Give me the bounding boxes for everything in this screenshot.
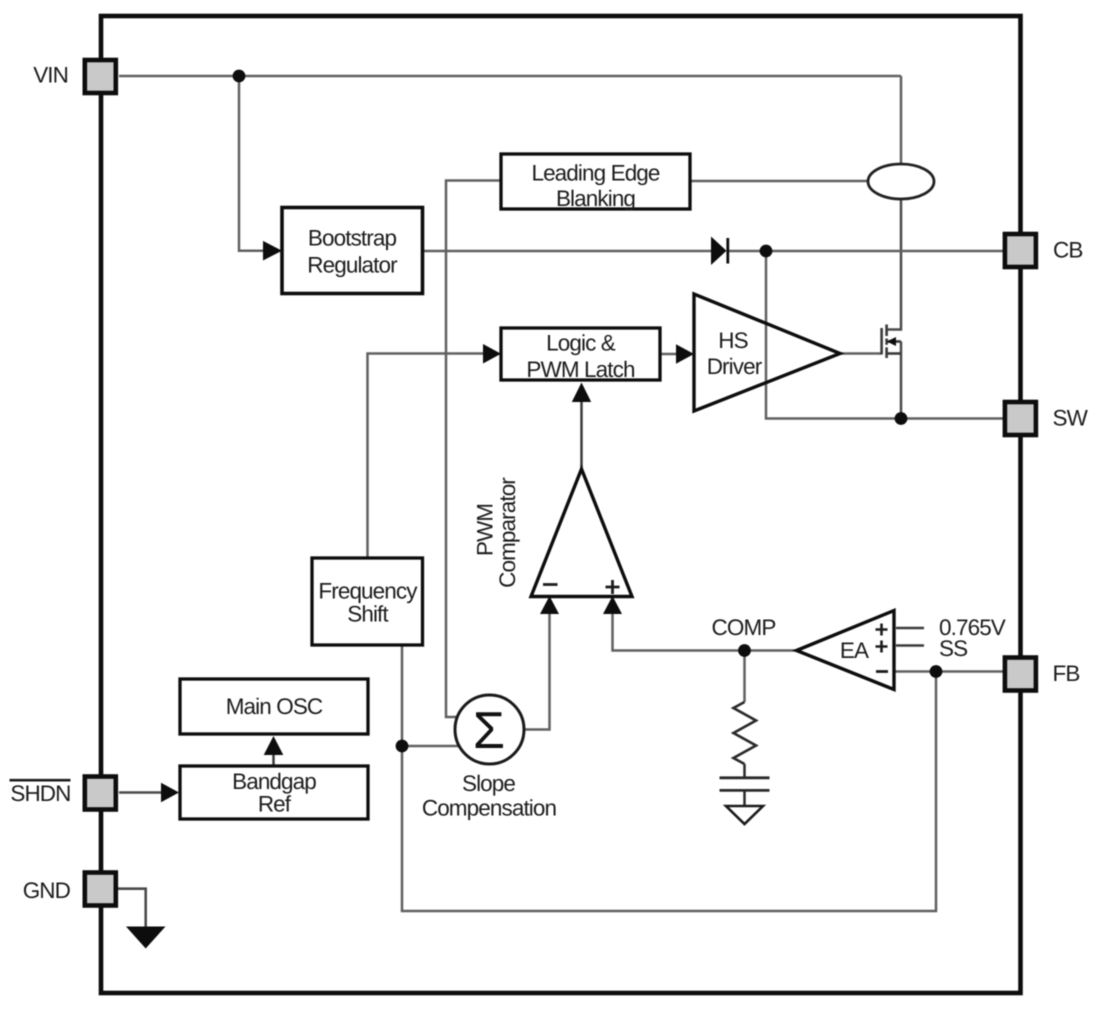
wire VIN rail drop to current source	[900, 76, 903, 164]
block Bootstrap Regulator	[282, 208, 423, 294]
svg-text:SHDN: SHDN	[10, 781, 70, 806]
svg-text:COMP: COMP	[712, 615, 776, 640]
wire frequency shift to logic input	[368, 354, 484, 559]
wire slope comp output to PWM minus input	[524, 613, 550, 730]
wire diode cathode to CB pin	[729, 250, 1004, 253]
svg-text:Main OSC: Main OSC	[226, 694, 323, 719]
svg-text:HS: HS	[718, 328, 747, 353]
arrow into HS driver	[676, 344, 694, 364]
svg-text:Ref: Ref	[258, 792, 292, 817]
resistor on COMP	[734, 702, 757, 764]
block Logic and PWM Latch	[501, 328, 660, 380]
PWM comparator minus label	[543, 583, 558, 586]
wire CB node down to SW rail	[766, 251, 1003, 419]
junction dot CB node	[760, 245, 773, 258]
svg-text:Σ: Σ	[473, 702, 505, 760]
block Frequency Shift	[312, 558, 423, 645]
wire resistor to capacitor	[743, 764, 746, 777]
EA plus input label middle	[876, 641, 888, 653]
wire EA ref stub 0.765V	[896, 627, 924, 630]
wire EA inverting input to FB pin	[894, 670, 1003, 673]
analog ground open triangle	[726, 806, 763, 824]
wire COMP node to resistor	[743, 651, 746, 703]
svg-text:Slope: Slope	[462, 771, 515, 796]
wire PWM comparator output up to logic	[580, 401, 583, 469]
PWM comparator plus label	[606, 580, 620, 594]
svg-text:CB: CB	[1053, 238, 1082, 263]
arrow into bootstrap regulator	[263, 241, 282, 261]
svg-text:Regulator: Regulator	[307, 253, 398, 278]
block Leading Edge Blanking	[501, 154, 690, 209]
svg-text:Driver: Driver	[707, 354, 763, 379]
svg-text:GND: GND	[23, 878, 71, 903]
svg-text:EA: EA	[840, 638, 869, 663]
junction dot FB node	[930, 665, 943, 678]
pin GND	[85, 873, 116, 906]
arrow into main osc	[264, 736, 284, 755]
svg-text:Bootstrap: Bootstrap	[308, 226, 397, 251]
svg-text:Compensation: Compensation	[422, 796, 557, 821]
pin VIN	[85, 60, 116, 93]
wire MOSFET source to SW rail	[900, 342, 903, 419]
arrow into PWM minus input	[540, 596, 559, 614]
junction dot COMP node	[738, 644, 751, 657]
junction dot feedback/slope node	[396, 740, 409, 753]
block Main OSC	[180, 679, 368, 734]
slope compensation summer circle	[455, 695, 524, 764]
svg-text:Comparator: Comparator	[495, 477, 520, 588]
pin SHDN	[85, 777, 116, 810]
svg-text:Logic &: Logic &	[546, 331, 616, 356]
junction dot VIN rail	[233, 70, 246, 83]
pin SW	[1005, 402, 1036, 435]
wire VIN rail	[119, 75, 901, 78]
arrow into bandgap	[161, 783, 179, 803]
wire EA ref stub SS	[896, 644, 924, 647]
EA minus input label	[876, 670, 888, 673]
block Bandgap Ref	[180, 766, 368, 819]
svg-text:Leading Edge: Leading Edge	[531, 161, 659, 186]
svg-text:Shift: Shift	[347, 602, 389, 627]
wire bandgap to main osc	[272, 754, 275, 766]
ground symbol filled triangle	[126, 927, 166, 949]
wire FB feedback down and around to frequency shift	[402, 645, 936, 911]
pin FB	[1005, 658, 1036, 691]
svg-text:FB: FB	[1053, 661, 1080, 686]
svg-text:Frequency: Frequency	[318, 579, 418, 604]
wire current source to MOSFET drain	[887, 199, 902, 330]
wire VIN to bootstrap input	[239, 76, 263, 251]
arrow into logic box	[483, 344, 501, 364]
svg-text:SW: SW	[1053, 406, 1089, 431]
wire Leading Edge Blanking input from slope comp node	[446, 181, 501, 718]
MOSFET Q1	[882, 325, 901, 359]
current source I1 ellipse	[868, 164, 934, 199]
EA plus input label top	[876, 624, 888, 636]
wire Leading Edge Blanking output to current source	[690, 180, 868, 183]
diode D1	[711, 237, 727, 266]
svg-text:Blanking: Blanking	[556, 186, 635, 211]
arrow into PWM plus input	[603, 596, 622, 614]
PWM comparator U3 triangle	[531, 469, 632, 597]
error amplifier EA triangle	[797, 611, 895, 690]
wire feedback node into slope comp	[402, 745, 460, 748]
wire COMP to PWM plus input	[613, 613, 797, 651]
wire capacitor to analog ground	[743, 790, 746, 806]
arrow into logic bottom	[572, 383, 591, 403]
svg-text:SS: SS	[939, 636, 967, 661]
svg-text:Bandgap: Bandgap	[232, 769, 316, 794]
pin CB	[1005, 234, 1036, 267]
HS driver U2 triangle	[694, 294, 840, 411]
junction dot SW node	[895, 412, 908, 425]
capacitor on COMP	[720, 778, 770, 791]
wire bootstrap output to diode anode	[423, 250, 711, 253]
wire SHDN pin to bandgap	[119, 791, 161, 794]
svg-text:VIN: VIN	[33, 63, 68, 88]
wire logic output to HS driver	[660, 353, 676, 356]
wire GND pin to ground symbol	[118, 889, 146, 927]
wire HS driver output to MOSFET gate	[840, 352, 882, 355]
svg-text:PWM Latch: PWM Latch	[526, 357, 635, 382]
svg-text:PWM: PWM	[473, 504, 498, 556]
